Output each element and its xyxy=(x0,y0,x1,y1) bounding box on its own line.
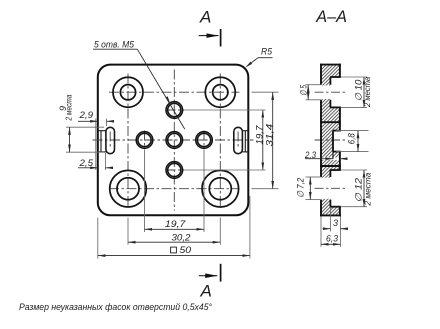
svg-text:6,3: 6,3 xyxy=(326,233,338,243)
svg-text:2,5: 2,5 xyxy=(78,158,94,168)
svg-text:5 отв. М5: 5 отв. М5 xyxy=(94,39,135,49)
svg-text:6,8: 6,8 xyxy=(347,133,357,144)
svg-text:50: 50 xyxy=(180,245,192,255)
svg-text:2,3: 2,3 xyxy=(304,150,316,160)
svg-text:∅ 10: ∅ 10 xyxy=(354,80,364,102)
svg-text:2 места: 2 места xyxy=(363,76,372,108)
svg-text:19,7: 19,7 xyxy=(254,125,264,145)
svg-text:31,4: 31,4 xyxy=(265,124,275,147)
svg-text:2 места: 2 места xyxy=(65,94,74,121)
svg-text:2,9: 2,9 xyxy=(78,110,93,120)
svg-text:∅ 12: ∅ 12 xyxy=(354,178,364,203)
svg-text:Размер неуказанных фасок отвер: Размер неуказанных фасок отверстий 0,5x4… xyxy=(19,302,212,312)
svg-text:A: A xyxy=(200,282,212,301)
svg-text:R5: R5 xyxy=(261,47,273,57)
svg-text:2 места: 2 места xyxy=(363,172,372,207)
svg-text:19,7: 19,7 xyxy=(165,219,187,229)
svg-text:3: 3 xyxy=(333,218,338,228)
svg-text:∅ 5: ∅ 5 xyxy=(299,84,309,96)
svg-text:A–A: A–A xyxy=(315,7,347,26)
svg-text:A: A xyxy=(199,8,211,27)
svg-text:∅ 7,2: ∅ 7,2 xyxy=(295,178,305,198)
svg-text:30,2: 30,2 xyxy=(172,232,191,242)
